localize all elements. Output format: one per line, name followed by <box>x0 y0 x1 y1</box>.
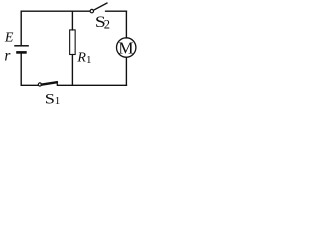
svg-text:S: S <box>45 90 55 107</box>
resistor R1 box <box>70 30 76 55</box>
svg-text:1: 1 <box>55 95 61 107</box>
svg-text:2: 2 <box>104 18 110 32</box>
wire bottom-left horizontal <box>21 84 38 86</box>
battery E long plate <box>15 45 28 47</box>
wire right lower vertical <box>125 57 127 85</box>
wire left upper vertical <box>20 11 22 46</box>
wire left lower vertical <box>20 52 22 85</box>
svg-text:R: R <box>76 50 86 65</box>
svg-text:E: E <box>4 30 14 45</box>
svg-text:1: 1 <box>86 54 92 66</box>
wire top-right horizontal <box>106 10 127 12</box>
svg-text:M: M <box>118 38 133 57</box>
svg-text:r: r <box>4 48 11 65</box>
wire bottom-middle horizontal <box>57 84 126 86</box>
label S1 <box>45 90 55 107</box>
switch S1 pivot circle <box>38 83 41 86</box>
wire R1 branch bottom <box>71 55 73 86</box>
switch S2 pivot circle <box>90 9 93 12</box>
switch S1 contact drop <box>56 82 59 85</box>
wire right upper vertical <box>125 11 127 38</box>
wire top-left horizontal <box>21 10 89 12</box>
switch S2 blade <box>94 3 107 10</box>
battery E short plate <box>18 51 26 54</box>
label S2 <box>95 13 106 31</box>
motor M circle <box>117 38 136 57</box>
switch S1 blade <box>42 82 57 84</box>
wire R1 branch top <box>71 11 73 30</box>
